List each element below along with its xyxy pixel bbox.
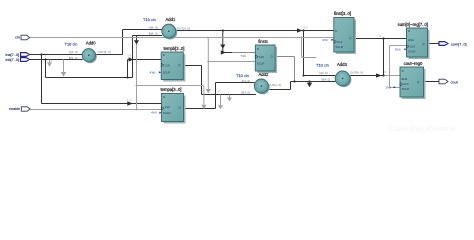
svg-text:CLK: CLK <box>259 55 265 59</box>
svg-text:7 4: 7 4 <box>128 54 132 58</box>
svg-text:SCLR: SCLR <box>163 111 170 115</box>
svg-text:ENA: ENA <box>402 77 408 81</box>
svg-text:T10 cin: T10 cin <box>316 63 329 68</box>
svg-text:B[4..0]: B[4..0] <box>241 91 250 95</box>
svg-text:tempb[3..0]: tempb[3..0] <box>164 46 185 51</box>
svg-text:B[4..0]: B[4..0] <box>322 77 331 81</box>
svg-text:CSDN @qq_41680016: CSDN @qq_41680016 <box>389 126 456 133</box>
svg-text:4'h0: 4'h0 <box>150 70 156 74</box>
svg-text:D: D <box>335 29 337 33</box>
svg-text:OUT[4..0]: OUT[4..0] <box>98 50 111 54</box>
svg-text:OUT[4..0]: OUT[4..0] <box>177 26 190 30</box>
svg-text:finstc: finstc <box>258 39 268 44</box>
svg-text:T10 cin: T10 cin <box>65 41 78 46</box>
svg-text:D: D <box>163 53 165 57</box>
svg-text:CLK: CLK <box>403 82 409 86</box>
svg-text:ENA: ENA <box>408 38 414 42</box>
svg-text:CLK: CLK <box>410 44 416 48</box>
svg-text:A[4..0]: A[4..0] <box>319 71 328 75</box>
svg-text:CLK: CLK <box>165 105 171 109</box>
svg-text:SCLR: SCLR <box>335 45 342 49</box>
svg-text:B[4..0]: B[4..0] <box>149 31 158 35</box>
svg-text:cin: cin <box>15 35 20 39</box>
svg-text:A[4..0]: A[4..0] <box>241 79 250 83</box>
svg-text:SCLR: SCLR <box>408 49 415 53</box>
svg-text:T10 cin: T10 cin <box>143 17 156 22</box>
svg-text:7 4: 7 4 <box>127 98 131 102</box>
svg-text:T10: T10 <box>241 54 247 58</box>
svg-text:D: D <box>408 29 410 33</box>
svg-text:8'h0: 8'h0 <box>395 47 401 51</box>
svg-text:T10 cin: T10 cin <box>236 73 249 78</box>
svg-text:CLK: CLK <box>337 40 343 44</box>
svg-text:D: D <box>257 47 259 51</box>
svg-text:A[4..0]: A[4..0] <box>69 50 78 54</box>
svg-text:SCLR: SCLR <box>402 87 409 91</box>
svg-text:CLK: CLK <box>165 63 171 67</box>
svg-text:Add0: Add0 <box>86 41 96 46</box>
svg-text:B[4..0]: B[4..0] <box>69 56 78 60</box>
svg-text:4'h0: 4'h0 <box>151 111 157 115</box>
svg-text:OUT[4..0]: OUT[4..0] <box>350 70 363 74</box>
svg-text:cout~reg0: cout~reg0 <box>404 61 423 66</box>
svg-text:D: D <box>402 69 404 73</box>
svg-text:finst[3..0]: finst[3..0] <box>334 11 351 16</box>
svg-text:Add3: Add3 <box>337 62 347 67</box>
svg-text:SCLR: SCLR <box>163 71 170 75</box>
svg-text:SCLR: SCLR <box>257 61 264 65</box>
svg-text:cout: cout <box>451 80 459 84</box>
svg-text:ina[7..0]: ina[7..0] <box>5 53 19 57</box>
svg-text:tempa[3..0]: tempa[3..0] <box>161 87 182 92</box>
svg-text:Add1: Add1 <box>166 17 176 22</box>
svg-text:1'h0: 1'h0 <box>385 85 391 89</box>
svg-text:inb[7..0]: inb[7..0] <box>5 58 19 62</box>
svg-text:A[4..0]: A[4..0] <box>149 25 158 29</box>
svg-text:sum[0]~reg[7..0]: sum[0]~reg[7..0] <box>398 22 428 27</box>
svg-text:enable: enable <box>9 107 20 111</box>
svg-text:3 0: 3 0 <box>304 26 308 30</box>
svg-text:D: D <box>163 95 165 99</box>
svg-text:OUT[4..0]: OUT[4..0] <box>268 83 281 87</box>
svg-text:sum[7..0]: sum[7..0] <box>451 42 467 46</box>
svg-text:4'h0: 4'h0 <box>322 38 328 42</box>
